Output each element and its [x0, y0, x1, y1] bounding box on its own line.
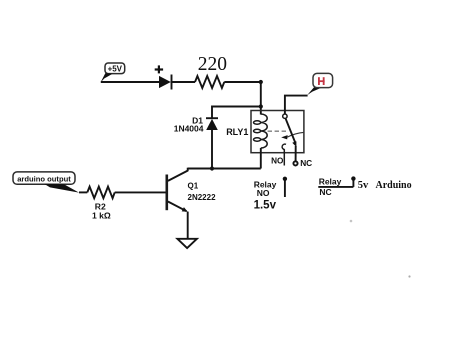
ground	[177, 239, 197, 248]
svg-text:NC: NC	[300, 158, 312, 168]
node junction at D1 branch	[259, 104, 263, 108]
svg-text:1.5v: 1.5v	[254, 200, 277, 212]
relay common contact	[283, 114, 287, 118]
svg-text:Relay: Relay	[319, 177, 342, 187]
power label +5V	[101, 63, 125, 82]
annotation Relay NO 1.5v	[254, 180, 277, 212]
svg-text:2N2222: 2N2222	[188, 193, 217, 202]
svg-text:arduino output: arduino output	[17, 174, 71, 183]
NC contact circle	[293, 161, 297, 165]
annotation 5v Arduino	[358, 180, 412, 191]
actuation arrow	[281, 132, 304, 139]
coil bottom lead	[260, 148, 262, 169]
polarity plus sign	[155, 65, 163, 73]
diode D2 (series)	[159, 75, 172, 90]
svg-text:1N4004: 1N4004	[174, 124, 204, 134]
wire bottom rail collector to coil	[188, 168, 261, 170]
wire +5V to diode	[101, 81, 159, 83]
svg-text:Q1: Q1	[188, 182, 199, 191]
transistor Q1	[167, 168, 188, 239]
resistor R2	[87, 187, 114, 199]
pin marker 2	[351, 176, 355, 186]
relay coil	[254, 114, 268, 148]
input label arduino output	[13, 172, 79, 193]
wire label to R2	[79, 191, 87, 193]
armature to NC	[286, 118, 297, 161]
svg-text:RLY1: RLY1	[226, 127, 248, 137]
stray mark 2	[350, 220, 353, 223]
svg-text:NC: NC	[319, 187, 331, 197]
wire to D1 cathode	[212, 107, 261, 120]
svg-text:Arduino: Arduino	[376, 180, 412, 191]
NO contact hook	[282, 144, 286, 149]
stray mark	[408, 275, 410, 277]
node junction top	[259, 80, 263, 84]
pin marker 1	[283, 177, 287, 197]
svg-text:220: 220	[198, 54, 227, 75]
svg-text:5v: 5v	[358, 180, 369, 191]
wire R2 to base	[115, 191, 166, 193]
wire diode to resistor	[172, 81, 196, 83]
dashed actuation line	[268, 130, 287, 132]
svg-text:NO: NO	[271, 157, 284, 166]
relay RLY1 box	[251, 111, 304, 153]
wire node down to coil	[260, 82, 262, 115]
node junction D1 anode	[210, 166, 214, 170]
NO lead	[283, 149, 285, 165]
net label H	[307, 73, 332, 95]
diode D1	[206, 118, 218, 168]
svg-text:1 kΩ: 1 kΩ	[92, 211, 111, 221]
svg-text:NO: NO	[257, 188, 270, 198]
resistor 220	[195, 76, 224, 88]
wire resistor to node	[224, 81, 260, 83]
wire common up to H	[285, 96, 308, 114]
svg-text:+5V: +5V	[108, 65, 123, 74]
annotation Relay NC	[318, 177, 353, 197]
